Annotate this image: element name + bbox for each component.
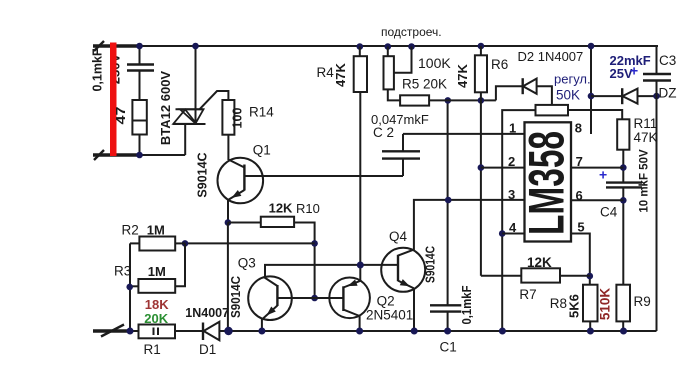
svg-text:1M: 1M (148, 264, 166, 279)
svg-text:100: 100 (231, 108, 245, 129)
svg-text:1N4007: 1N4007 (185, 306, 229, 320)
svg-text:R2: R2 (122, 223, 139, 238)
svg-text:47: 47 (113, 107, 128, 125)
svg-text:1: 1 (509, 121, 516, 136)
svg-text:2N5401: 2N5401 (366, 308, 413, 323)
svg-text:D1: D1 (199, 342, 216, 357)
svg-text:12K: 12K (527, 255, 552, 270)
svg-text:47K: 47K (455, 63, 470, 87)
svg-text:4: 4 (509, 220, 517, 235)
svg-text:Q1: Q1 (253, 143, 271, 158)
svg-text:2: 2 (508, 154, 515, 169)
svg-text:5: 5 (577, 220, 584, 235)
svg-text:BTA12 600V: BTA12 600V (158, 71, 173, 146)
svg-text:C1: C1 (440, 340, 457, 355)
svg-text:LM358: LM358 (519, 131, 575, 235)
svg-text:подстроеч.: подстроеч. (381, 25, 442, 39)
svg-text:R4: R4 (317, 65, 335, 80)
svg-text:R10: R10 (296, 201, 320, 216)
svg-text:8: 8 (575, 121, 582, 136)
svg-text:+: + (599, 167, 607, 183)
svg-text:R8: R8 (550, 296, 567, 311)
svg-text:S9014C: S9014C (196, 152, 210, 197)
svg-text:20K: 20K (144, 311, 168, 326)
svg-text:1M: 1M (147, 223, 165, 238)
svg-text:C3: C3 (659, 53, 676, 68)
svg-text:R14: R14 (249, 105, 274, 120)
svg-text:R11: R11 (634, 116, 658, 131)
svg-text:Q3: Q3 (238, 256, 256, 271)
svg-text:47K: 47K (333, 62, 348, 86)
svg-text:18K: 18K (145, 297, 169, 312)
svg-text:7: 7 (576, 154, 583, 169)
svg-text:3: 3 (508, 187, 515, 202)
svg-text:50K: 50K (556, 88, 580, 103)
svg-text:C 2: C 2 (373, 125, 394, 140)
svg-text:5K6: 5K6 (566, 294, 581, 318)
svg-text:R6: R6 (491, 57, 508, 72)
svg-text:Q4: Q4 (389, 229, 408, 244)
svg-text:R5 20K: R5 20K (402, 77, 447, 92)
svg-text:R3: R3 (114, 264, 131, 279)
svg-text:0,1mkF: 0,1mkF (460, 285, 474, 324)
svg-text:6: 6 (576, 188, 583, 203)
svg-text:12K: 12K (269, 201, 293, 216)
svg-text:47K: 47K (634, 130, 658, 145)
svg-text:S9014C: S9014C (424, 246, 438, 283)
svg-text:R7: R7 (519, 287, 536, 302)
svg-text:D2 1N4007: D2 1N4007 (518, 49, 584, 64)
svg-text:DZ: DZ (659, 86, 677, 101)
svg-text:C4: C4 (600, 205, 618, 220)
svg-text:100K: 100K (418, 55, 451, 71)
svg-text:R1: R1 (144, 342, 161, 357)
svg-text:Q2: Q2 (377, 294, 395, 309)
svg-text:10 mkF 50V: 10 mkF 50V (639, 149, 651, 213)
svg-text:S9014C: S9014C (229, 276, 243, 318)
svg-text:R9: R9 (634, 294, 651, 309)
svg-text:регул.: регул. (554, 72, 591, 87)
svg-text:510K: 510K (598, 288, 613, 321)
svg-text:+: + (630, 63, 638, 79)
svg-text:0,1mkF: 0,1mkF (91, 48, 105, 91)
